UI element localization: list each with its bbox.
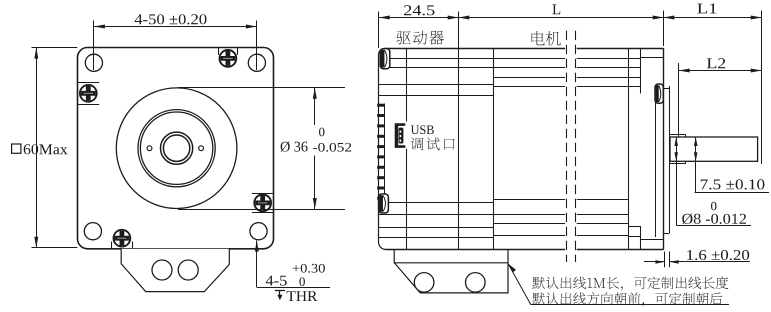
dimension D36 line — [314, 88, 316, 125]
boss circle outer — [138, 110, 215, 187]
housing line bottom 3d — [379, 227, 494, 229]
dimension 4-50 line — [94, 26, 257, 28]
dimension L ext right — [663, 11, 665, 47]
body bottom edge — [385, 249, 565, 251]
dimension L2 ext left — [678, 63, 680, 137]
dimension L text — [552, 4, 560, 14]
mounting hole top-right — [248, 54, 265, 71]
dimension 24.5 arrows — [379, 16, 390, 20]
dimension 4-50 arrow left — [94, 25, 105, 29]
front flange rib line — [640, 48, 642, 93]
driver cover line — [406, 48, 408, 121]
flange recess line — [655, 97, 657, 237]
housing line bottom 1 — [493, 199, 565, 201]
dimension 4-50 extension line right — [256, 21, 258, 71]
dimension 60max ext top — [32, 47, 78, 49]
label driver chinese — [397, 31, 444, 45]
label debug port chinese — [411, 137, 455, 150]
label USB — [411, 125, 434, 134]
housing line top 3 — [493, 77, 565, 79]
thread text THR — [287, 291, 318, 301]
cable hole front right — [178, 260, 198, 280]
small hole right — [199, 146, 204, 151]
housing line top 4 driver — [379, 84, 494, 86]
screw notch bottom — [111, 242, 113, 249]
output shaft — [670, 137, 758, 161]
motor front view flange outline — [78, 48, 274, 249]
dimension 1.6 ext lines — [664, 252, 666, 268]
dimension D36 arrow bottom — [313, 198, 317, 209]
dimension D8 arrows — [676, 137, 678, 161]
depth symbol — [275, 290, 285, 292]
dimension L2 arrows — [679, 69, 690, 73]
dimension L line — [458, 17, 663, 19]
body top edge — [384, 48, 565, 50]
housing line bottom 4d — [379, 237, 494, 239]
screw notch top — [218, 48, 220, 55]
mounting hole bottom-left — [84, 223, 101, 240]
dimension D8 text — [711, 202, 717, 211]
dimension L2 line — [679, 70, 762, 72]
shaft step lines — [669, 134, 685, 136]
screw notch left — [77, 82, 99, 84]
dimension 60max arrow bottom — [34, 237, 38, 248]
dimension 4-50 arrow right — [246, 25, 257, 29]
dimension 1.6 arrows — [644, 261, 664, 263]
housing line bottom 4 — [493, 235, 565, 237]
dimension 60max line — [36, 48, 38, 248]
pilot circle D36 — [116, 88, 237, 209]
dimension 24.5 ext left — [378, 12, 380, 49]
small hole left — [147, 146, 152, 151]
front rib step top — [641, 57, 664, 59]
screw right — [254, 195, 271, 212]
dimension 7.5 text — [701, 179, 765, 189]
dimension L2 text — [707, 58, 725, 68]
motor rear bell line — [493, 48, 495, 249]
dimension 4-5 leader line — [256, 241, 258, 288]
fin rail line — [384, 104, 386, 201]
dimension 4-5 text — [266, 276, 287, 286]
hub circle — [161, 132, 193, 164]
heatsink ladder rungs — [377, 104, 384, 200]
note line 2 chinese — [532, 292, 722, 306]
mounting hole bottom-right — [250, 223, 267, 240]
housing line top 1 — [387, 58, 566, 60]
mounting hole top-left — [85, 54, 102, 71]
flange face line — [663, 48, 665, 249]
clip flange face — [655, 84, 663, 103]
dimension 24.5 text — [404, 5, 435, 15]
dimension L1 text — [697, 4, 716, 14]
label motor chinese — [532, 31, 561, 46]
dimension D8 leader — [676, 161, 678, 225]
dimension D36 ext top — [178, 87, 345, 89]
motor front bell line — [628, 48, 630, 249]
dimension 4-5 leader arrow — [255, 241, 259, 252]
cable hole side left — [414, 273, 434, 293]
screw notch right — [252, 193, 274, 195]
clip driver bottom — [379, 194, 389, 213]
flange plate caps — [664, 88, 670, 90]
shaft circle — [163, 135, 189, 161]
dimension 1.6 line — [674, 261, 750, 263]
clip driver top — [380, 49, 390, 69]
dimension L1 ext right — [761, 11, 763, 165]
housing line top 5 driver — [379, 95, 494, 97]
cable housing side view — [394, 249, 508, 293]
housing line top 2 — [387, 67, 566, 69]
flange plate front line — [669, 86, 671, 233]
cable note leader — [508, 264, 516, 273]
dimension 24.5 line — [379, 17, 459, 19]
dimension 60max square symbol — [12, 144, 21, 153]
cable housing front view — [121, 249, 229, 292]
boss circle inner — [140, 112, 212, 184]
housing line top 4 motor — [493, 86, 565, 88]
cable hole front left — [152, 260, 172, 280]
dimension 7.5 leader — [695, 161, 697, 192]
screw bottom — [114, 230, 131, 247]
screw left — [80, 85, 97, 102]
dimension L1 arrows — [663, 16, 674, 20]
dimension 4-50 text — [135, 14, 207, 24]
dimension 1.6 text — [687, 250, 749, 260]
note line 1 chinese — [532, 276, 728, 290]
dimension 60max text — [24, 144, 68, 154]
dimension D36 arrow top — [313, 88, 317, 99]
screw top — [220, 50, 237, 67]
dimension 7.5 arrows — [695, 137, 697, 161]
dimension 60max arrow top — [34, 48, 38, 59]
driver motor interface line — [458, 12, 460, 250]
housing line bottom 2 — [379, 214, 566, 216]
dimension 4-50 extension line left — [93, 21, 95, 71]
dimension L1 line — [664, 17, 761, 19]
housing line bottom 1d — [379, 202, 494, 204]
front rib step bottom — [641, 239, 664, 241]
housing line bottom 3 — [493, 223, 565, 225]
USB port bracket — [395, 123, 406, 148]
break line left — [566, 31, 568, 262]
driver body outline — [379, 49, 386, 250]
dimension D36 ext bottom — [178, 209, 345, 211]
dimension 60max ext bottom — [32, 247, 78, 249]
cable hole side right — [466, 273, 486, 293]
dimension L arrows — [458, 16, 469, 20]
dimension D36 text — [281, 141, 308, 152]
break line right — [575, 31, 577, 262]
